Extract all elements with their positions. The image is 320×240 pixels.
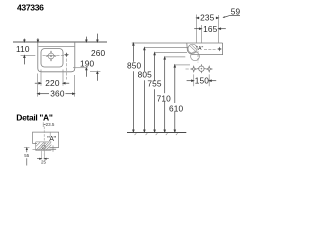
755 level line	[155, 52, 187, 54]
dim 755 vertical	[154, 53, 156, 133]
svg-text:"A": "A"	[196, 46, 203, 52]
drain symbol (side view bottom)	[197, 64, 206, 73]
detail outline	[33, 132, 59, 147]
horizontal centreline through drain	[21, 54, 36, 56]
710 level line	[165, 56, 186, 58]
svg-text:710: 710	[157, 94, 172, 104]
svg-text:55: 55	[24, 153, 30, 158]
extension line tap (235 left)	[196, 15, 198, 44]
wall line (plan view)	[13, 41, 107, 43]
svg-text:23.5: 23.5	[46, 122, 55, 127]
svg-text:755: 755	[147, 79, 162, 89]
floor hatch marks	[135, 133, 178, 135]
centreline dash left of holes	[186, 68, 189, 70]
fixing hole centreline dashes (side view)	[204, 48, 217, 50]
dim 190 arrows	[86, 37, 88, 77]
svg-text:59: 59	[231, 7, 241, 17]
svg-text:150: 150	[195, 76, 210, 86]
detail fixing bracket hatched	[36, 142, 52, 151]
dim 165	[194, 28, 226, 30]
extension arrow at basin left edge	[37, 38, 39, 42]
svg-text:235: 235	[200, 13, 215, 23]
svg-text:260: 260	[91, 48, 106, 58]
dim 235	[197, 17, 219, 19]
dim 220 arrows	[35, 82, 69, 84]
dim 805 vertical	[144, 48, 146, 133]
svg-text:190: 190	[80, 58, 95, 68]
dim 360 line with arrows	[38, 93, 75, 95]
dim 260 arrows	[97, 34, 99, 81]
805 level line	[144, 47, 188, 49]
svg-text:25: 25	[41, 160, 47, 165]
extension lines bowl (220)	[40, 70, 42, 86]
extension line wall (right)	[218, 15, 220, 43]
extension line drain (165 left)	[201, 25, 203, 43]
dim 710 vertical	[164, 57, 166, 132]
svg-text:437336: 437336	[17, 3, 44, 13]
detail 23.5 right extension	[49, 132, 51, 136]
svg-text:165: 165	[203, 24, 218, 34]
fixing hole star (side view right)	[217, 47, 222, 52]
extension lines fixing holes (150)	[193, 74, 195, 86]
dim 850 vertical	[133, 43, 135, 132]
left fixing hole diamond	[191, 66, 197, 72]
svg-text:220: 220	[45, 78, 60, 88]
svg-text:110: 110	[16, 44, 30, 54]
basin deck back edge line	[38, 45, 74, 47]
vertical centreline through tap hole	[66, 59, 68, 80]
drain symbol (plan)	[46, 51, 56, 61]
svg-text:610: 610	[169, 104, 184, 114]
basin front reference line (260)	[90, 70, 100, 72]
dim 150	[187, 80, 217, 82]
overflow circle (hatched)	[188, 44, 197, 53]
drain centreline (side view)	[197, 51, 199, 63]
bowl (plan view)	[41, 49, 63, 67]
extension lines basin (360)	[37, 74, 39, 97]
dim 610 vertical	[174, 65, 176, 132]
detail dim 25	[41, 151, 43, 160]
svg-text:"A": "A"	[47, 136, 56, 143]
right fixing hole diamond	[206, 66, 212, 72]
bowl front reference line (190)	[73, 67, 88, 69]
detail left dim 55	[24, 147, 30, 149]
dim 110 arrows	[24, 39, 26, 65]
rim top line (850 level)	[132, 42, 223, 44]
detail centreline	[43, 127, 45, 160]
detail dim 23.5	[42, 122, 44, 127]
detail fixing cross mark	[49, 148, 57, 150]
610 level line	[174, 64, 190, 66]
svg-text:360: 360	[50, 89, 65, 99]
basin outer rim (plan view)	[38, 42, 75, 72]
svg-text:Detail "A": Detail "A"	[16, 112, 53, 122]
trap circle below basin	[191, 52, 200, 61]
tap hole star (plan)	[64, 52, 69, 57]
basin profile (side view)	[187, 43, 223, 55]
floor line	[127, 132, 186, 134]
detail mounting surface line	[33, 148, 57, 150]
